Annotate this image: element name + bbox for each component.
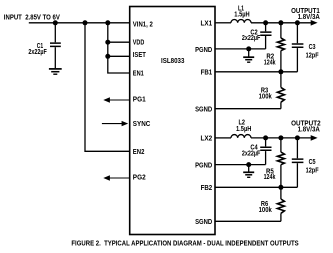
resistor R2 bottom lead <box>280 51 282 72</box>
svg-text:C3: C3 <box>309 44 316 51</box>
svg-text:FIGURE 2. TYPICAL APPLICATION: FIGURE 2. TYPICAL APPLICATION DIAGRAM - … <box>71 240 299 247</box>
wire SYNC with arrow <box>102 123 123 125</box>
wire LX1 to L1 <box>215 22 231 24</box>
resistor R3 zigzag <box>277 87 284 102</box>
wire input rail to VIN1,2 pin <box>29 22 130 24</box>
svg-text:1.5µH: 1.5µH <box>234 12 249 19</box>
svg-text:FB1: FB1 <box>201 69 213 76</box>
svg-text:VIN1, 2: VIN1, 2 <box>133 21 153 28</box>
wire EN2 bus vertical <box>85 23 130 152</box>
capacitor C5 plates <box>292 159 304 162</box>
svg-text:EN2: EN2 <box>133 149 145 156</box>
arrowhead PG2 <box>103 175 110 180</box>
node junction R2 tap <box>278 20 283 25</box>
svg-text:VDD: VDD <box>133 40 145 47</box>
resistor R3 top lead <box>280 72 282 88</box>
svg-text:124k: 124k <box>264 174 276 181</box>
wire PG1 with arrow <box>109 99 130 101</box>
arrowhead output2 <box>311 135 318 141</box>
svg-text:EN1: EN1 <box>133 71 144 78</box>
svg-text:1.5µH: 1.5µH <box>236 126 251 133</box>
arrowhead output1 <box>311 20 318 26</box>
capacitor C1 top lead wire <box>54 23 56 43</box>
node junction C1 tap <box>53 20 58 25</box>
svg-text:PG2: PG2 <box>133 175 146 182</box>
svg-text:100k: 100k <box>259 207 272 214</box>
capacitor C3 plates <box>292 44 304 47</box>
node junction PGND2 ground tap <box>246 162 251 167</box>
capacitor C4 bottom lead <box>265 151 267 165</box>
capacitor C3 top lead <box>296 23 298 43</box>
svg-text:PG1: PG1 <box>133 97 146 104</box>
svg-text:SYNC: SYNC <box>133 121 151 128</box>
wire SGND2 pin line <box>215 220 281 222</box>
ground below PGND2 <box>243 165 254 178</box>
capacitor C4 top lead <box>265 138 267 147</box>
node junction ISET <box>105 54 110 59</box>
wire VDD/ISET/EN1 bus vertical <box>108 23 130 73</box>
capacitor C3 bottom lead <box>296 48 298 72</box>
svg-text:ISL8033: ISL8033 <box>161 58 184 65</box>
wire L1 to output1 <box>251 22 312 24</box>
svg-text:1.8V/3A: 1.8V/3A <box>298 14 320 21</box>
node junction C3 tap <box>295 20 300 25</box>
svg-text:2x22µF: 2x22µF <box>28 49 47 56</box>
wire PGND1 pin to C2 <box>215 48 266 50</box>
svg-text:SGND: SGND <box>195 219 212 226</box>
arrowhead PG1 <box>103 97 110 102</box>
IC U1 ISL8033 body <box>130 7 215 235</box>
resistor R3 bottom lead <box>280 102 282 109</box>
node junction C2 tap <box>263 20 268 25</box>
wire FB2 pin line <box>215 186 297 188</box>
resistor R5 zigzag <box>277 152 284 165</box>
svg-text:2x22µF: 2x22µF <box>242 150 261 157</box>
wire ISET pin <box>108 55 130 57</box>
node junction FB2 <box>278 185 283 190</box>
wire SGND1 pin line <box>215 108 281 110</box>
node junction VDD <box>105 40 110 45</box>
resistor R2 top lead <box>280 23 282 38</box>
capacitor C2 plates <box>260 32 271 35</box>
resistor R5 top lead <box>280 138 282 152</box>
ground below PGND1 <box>243 49 254 62</box>
svg-text:ISET: ISET <box>133 52 147 59</box>
node junction C4 tap <box>263 135 268 140</box>
wire PGND2 pin to C4 <box>215 164 266 166</box>
node junction VDD bus tap <box>105 20 110 25</box>
capacitor C2 bottom lead <box>265 36 267 49</box>
node junction PGND1 ground tap <box>246 46 251 51</box>
svg-text:12pF: 12pF <box>306 52 320 59</box>
svg-text:12pF: 12pF <box>306 167 320 174</box>
wire FB1 pin line <box>215 71 297 73</box>
arrowhead SYNC <box>122 121 129 126</box>
svg-text:2x22µF: 2x22µF <box>242 35 261 42</box>
inductor L1 <box>231 19 251 22</box>
capacitor C5 top lead <box>296 138 298 158</box>
resistor R5 bottom lead <box>280 165 282 188</box>
node junction EN2 bus tap <box>83 20 88 25</box>
inductor L2 <box>231 135 251 138</box>
resistor R6 top lead <box>280 187 282 199</box>
svg-text:INPUT 2.85V TO 6V: INPUT 2.85V TO 6V <box>4 15 60 22</box>
node junction FB1 <box>278 69 283 74</box>
capacitor C1 bottom lead wire <box>54 47 56 68</box>
capacitor C1 plates <box>50 43 61 46</box>
svg-text:LX2: LX2 <box>201 135 213 142</box>
resistor R6 zigzag <box>277 199 284 213</box>
wire PG2 with arrow <box>109 177 130 179</box>
svg-text:LX1: LX1 <box>201 20 213 27</box>
svg-text:100k: 100k <box>259 93 272 100</box>
capacitor C4 plates <box>260 147 271 150</box>
svg-text:FB2: FB2 <box>201 185 213 192</box>
node junction C5 tap <box>295 135 300 140</box>
svg-text:SGND: SGND <box>195 106 212 113</box>
ground below C1 <box>49 69 62 74</box>
node junction R5 tap <box>278 135 283 140</box>
capacitor C2 top lead <box>265 23 267 32</box>
resistor R2 zigzag <box>277 38 284 51</box>
wire L2 to output2 <box>251 137 312 139</box>
svg-text:PGND: PGND <box>195 162 212 169</box>
capacitor C5 bottom lead <box>296 163 298 187</box>
svg-text:PGND: PGND <box>195 47 212 54</box>
wire VDD pin <box>108 41 130 43</box>
svg-text:124k: 124k <box>264 59 276 66</box>
wire LX2 to L2 <box>215 137 231 139</box>
svg-text:C5: C5 <box>309 159 316 166</box>
svg-text:1.8V/3A: 1.8V/3A <box>298 127 320 134</box>
resistor R6 bottom lead <box>280 213 282 221</box>
